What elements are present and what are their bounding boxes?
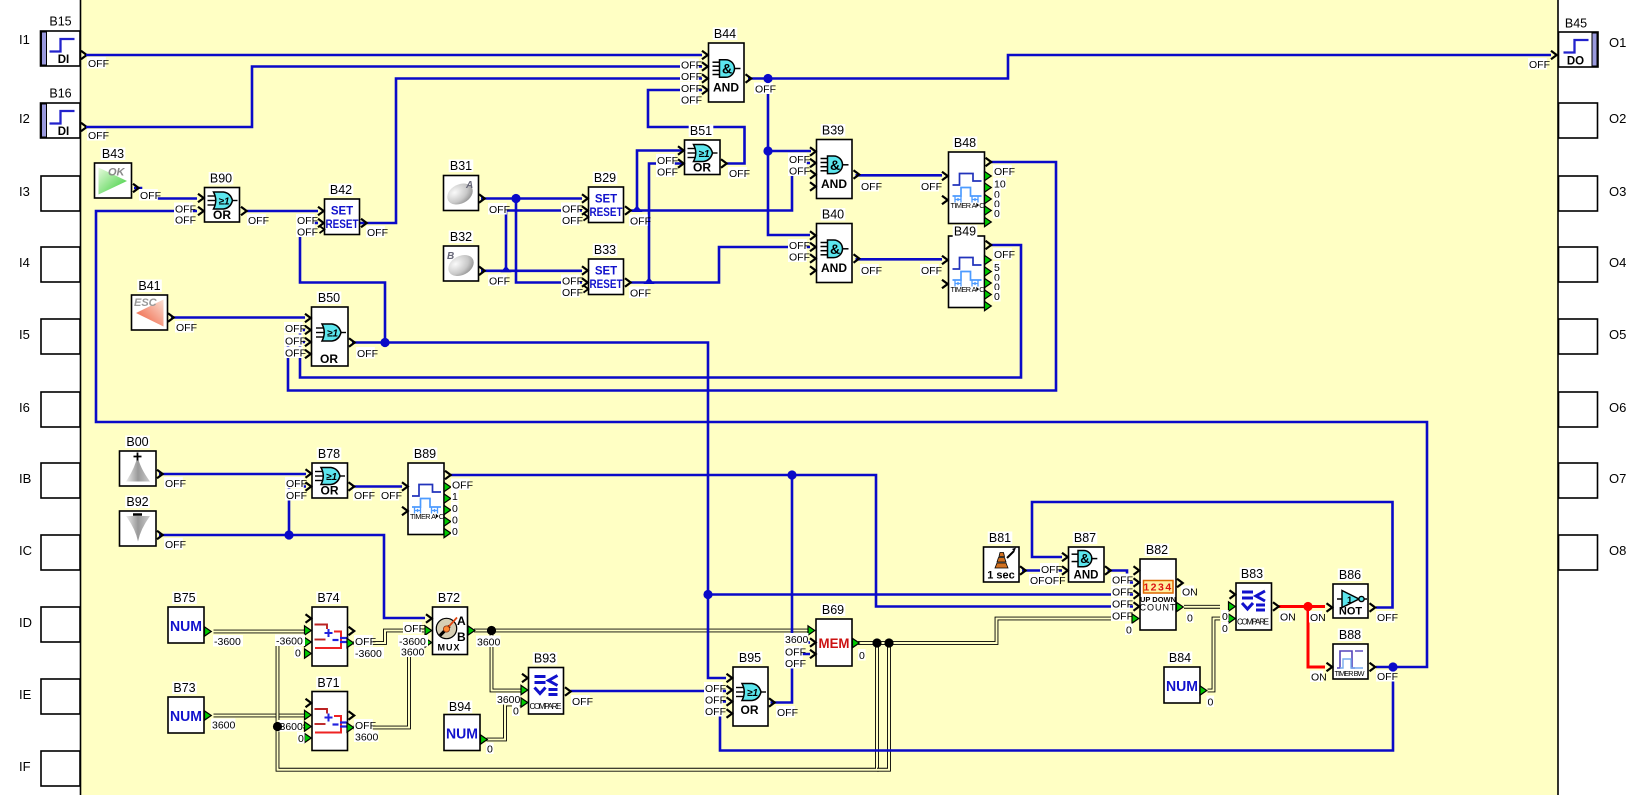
svg-text:O5: O5 [1609,327,1626,342]
junction red B83 output [1303,602,1312,611]
svg-text:-3600: -3600 [355,648,382,660]
block B74 (math instruction) [312,607,348,666]
B40 label [821,208,846,222]
red wire B83 output to B86 input [1279,605,1326,608]
block B43 (OK softkey) [95,163,132,198]
B92 label [125,495,150,509]
svg-text:IE: IE [19,687,32,702]
svg-text:0: 0 [1222,611,1228,623]
B95 label [738,651,763,665]
svg-text:0: 0 [513,705,519,717]
svg-text:TIMER A: TIMER A [951,201,977,210]
svg-text:0: 0 [452,526,458,538]
B15 output pin [81,51,87,60]
svg-text:AND: AND [821,261,847,275]
value label OFF at 165,478 [164,477,186,490]
B48 input pins [942,172,948,181]
B71 output pins [349,711,355,720]
svg-text:B84: B84 [1169,651,1191,665]
value label OFF at 140,190 [139,189,161,202]
svg-text:OFF: OFF [755,83,776,95]
B44 label [713,27,738,41]
block B82 (up/down counter) [1140,559,1177,630]
value label 0 at 1207.5,696.5 [1207,696,1215,709]
svg-text:0: 0 [994,208,1000,220]
value label OFF at 1112,598.5 [1111,598,1133,611]
B72 output pin [468,626,475,635]
svg-text:TIMER BW: TIMER BW [1335,669,1365,678]
value label OFF at 681,94.5 [680,94,702,107]
B90 output pin [241,207,247,216]
value label OFF at 88,130 [87,129,109,142]
output block B45 (DO, O1) [1559,32,1627,68]
B81 label [988,531,1013,545]
svg-text:I1: I1 [19,32,30,47]
B72 label [437,591,462,605]
value label OFF at 297,215 [296,214,318,227]
svg-text:3600: 3600 [212,719,236,731]
svg-text:OFF: OFF [789,240,810,252]
B41 label [137,279,162,293]
svg-text:NUM: NUM [170,708,202,725]
B93 label [533,652,558,666]
B41 output pin [168,313,174,322]
junction B50 net at B82 branch [703,590,712,599]
B84 label [1168,651,1193,665]
value label OFF at 562,275.5 [561,275,583,288]
svg-text:OFF: OFF [297,226,318,238]
B88 output pin [1370,663,1376,672]
wire B39 output to B48 input1 [856,174,943,177]
value label OFF at 88,58 [87,57,109,70]
B31 output pin [479,194,485,203]
wire B31 output to B33 input2 [516,199,582,283]
B86 input pin [1327,603,1333,612]
value label 10 at 994,178.5 [993,178,1006,191]
B32 output pin [479,267,485,276]
B39 output pin [854,170,860,179]
svg-text:OFF: OFF [562,215,583,227]
svg-text:0: 0 [452,503,458,515]
svg-text:OFF: OFF [354,490,375,502]
B39 label [821,124,846,138]
B49 output pin Q [986,241,992,250]
value label OFF at 562,215 [561,214,583,227]
wire B48 output to B50 input3 [288,162,1056,391]
svg-text:0: 0 [1126,624,1132,636]
value label OFF at 1377,671 [1376,670,1398,683]
junction B44 net at B39 input1 [763,146,772,155]
svg-text:C: C [439,512,444,521]
svg-text:IF: IF [19,759,31,774]
svg-text:C: C [979,201,984,210]
svg-text:IB: IB [19,471,31,486]
wire B93 output to B95 input2 [571,690,727,693]
svg-text:OFF: OFF [562,287,583,299]
svg-text:B44: B44 [714,27,736,41]
junction B88 output [1388,662,1397,671]
value label 0 at 1222,623 [1221,622,1229,635]
value label 5 at 994,262 [993,261,1001,274]
value label OFF at 777,707 [776,706,798,719]
B83 label [1240,567,1265,581]
B69 output pin [853,638,860,647]
svg-text:ON: ON [1311,671,1327,683]
svg-text:OFF: OFF [705,694,726,706]
value label OFF at 994,249 [993,248,1015,261]
svg-text:≥1: ≥1 [747,688,758,699]
svg-text:B51: B51 [690,124,712,138]
B82 output pin Q [1177,579,1183,588]
value label -3600 at 214,636 [213,635,243,648]
svg-text:3600: 3600 [355,731,379,743]
svg-text:B71: B71 [317,676,339,690]
svg-text:3600: 3600 [401,646,425,658]
value label OFF at 562,203.5 [561,203,583,216]
B00 output pin [157,470,163,479]
svg-text:ID: ID [19,615,32,630]
B31 label [449,159,474,173]
value label 0 at 487,743.5 [486,743,494,756]
block B93 (analog comparator) [529,668,564,715]
value label OFF at 785,646.5 [784,646,806,659]
svg-text:-3600: -3600 [276,635,303,647]
value label ON at 1311,671.5 [1310,671,1327,684]
value label OFF at 994,166 [993,165,1015,178]
value label OFF at 297,226.5 [296,226,318,239]
B00 label [125,435,150,449]
value label OFF at 861,181 [860,180,882,193]
input block B16 (DI, I2) [41,103,81,138]
svg-text:3600: 3600 [785,634,809,646]
svg-text:OFF: OFF [777,707,798,719]
svg-text:3600: 3600 [477,636,501,648]
svg-text:B90: B90 [210,172,232,186]
B87 output pin [1105,566,1111,575]
B78 output pin [349,482,355,491]
B86 output pin [1370,603,1376,612]
value label OFF at 1112,586.5 [1111,586,1133,599]
svg-text:OFF: OFF [921,181,942,193]
value label OFF at 286,478 [285,477,307,490]
svg-text:B69: B69 [822,603,844,617]
B93 input pins [522,674,528,683]
svg-text:OR: OR [693,161,711,175]
input connector IF (empty box) [19,751,80,786]
svg-text:B16: B16 [49,87,71,101]
junction B89 output [787,470,796,479]
svg-text:&: & [1080,551,1089,566]
B90 label [209,172,234,186]
svg-text:O1: O1 [1609,35,1626,50]
B94 output pin [481,735,488,744]
B40 input pins [810,231,816,240]
B48 output pin Q [986,158,992,167]
output connector O5 (empty box) [1559,319,1627,354]
B51 input pins [678,146,684,155]
svg-text:OFF: OFF [789,251,810,263]
junction analog feedback at B71 input3 [273,722,282,731]
value label OFF at 367,227 [366,226,388,239]
svg-text:I3: I3 [19,184,30,199]
B29 output pin [625,206,631,215]
svg-text:NUM: NUM [446,726,478,743]
analog wire B74 output to B72 input2 [354,631,425,644]
B49 parameter outputs [985,255,992,264]
block B95 (OR gate 4-input) [733,667,768,726]
wire B33 output to B51 input2 [649,164,683,283]
block B84 (NUM constant) [1164,667,1200,703]
B15 label [48,15,73,29]
svg-text:ON: ON [1182,586,1198,598]
svg-text:COMPARE: COMPARE [1237,618,1269,627]
block B48 (timer A to C) [949,152,985,224]
input connector I6 (empty box) [19,392,80,427]
svg-text:O8: O8 [1609,543,1626,558]
svg-text:OFF: OFF [286,490,307,502]
analog wire B84 output to B83 input3 [1208,619,1221,691]
svg-text:ON: ON [1280,611,1296,623]
value label OFF at 681,59.5 [680,59,702,72]
wire B44 output down to B39 and B40 input1 [768,79,810,236]
svg-text:1 sec: 1 sec [987,570,1015,582]
value label OFF at 921,181 [920,180,942,193]
svg-text:OFF: OFF [572,696,593,708]
svg-text:I5: I5 [19,327,30,342]
value label 0 at 994,281.5 [993,281,1001,294]
value label OFF at 176,322 [175,321,197,334]
svg-text:B81: B81 [989,531,1011,545]
svg-text:NOT: NOT [1339,606,1363,618]
svg-text:1234: 1234 [1143,582,1172,594]
svg-text:0: 0 [1187,612,1193,624]
svg-text:OFF: OFF [88,130,109,142]
wire I1 to B44 input1 [86,54,702,57]
block B88 (wiping relay timer BW) [1333,644,1368,679]
value label OFF at 705,706 [704,705,726,718]
block B71 (math instruction) [312,692,348,751]
junction B31 output [511,194,520,203]
junction analog B69 output drop2 [884,638,893,647]
value label 0 at 298,733 [297,732,305,745]
value label OFF at 404,623 [403,622,425,635]
svg-text:COUNT: COUNT [1140,603,1177,613]
block B40 (AND gate 4-input) [817,224,853,283]
svg-text:O3: O3 [1609,184,1626,199]
value label 3600 at 279.5,721 [279,720,304,733]
svg-text:B00: B00 [126,435,148,449]
block B83 (analog comparator) [1236,583,1272,630]
B83 input pins [1230,590,1236,599]
svg-text:AND: AND [821,177,847,191]
svg-text:OFF: OFF [921,265,942,277]
svg-text:0: 0 [994,291,1000,303]
B40 output pin [854,254,860,263]
value label OFF at 789,165.5 [788,165,810,178]
block B31 (sensor A icon) [444,176,479,211]
svg-text:B40: B40 [822,208,844,222]
svg-text:MEM: MEM [819,636,850,651]
analog wire B94 output to B93 input3 [487,705,522,740]
svg-text:OFF: OFF [785,646,806,658]
svg-text:COMPARE: COMPARE [530,702,562,711]
B45 input pin [1551,51,1557,60]
value label OFF at 630,287.5 [629,287,651,300]
B86 label [1338,568,1363,582]
input connector IC (empty box) [19,535,80,570]
value label OFF at 729,168 [728,167,750,180]
block B78 (OR gate) [312,463,348,498]
wire B49 output to B50 input2 [300,245,1021,378]
svg-text:O6: O6 [1609,400,1626,415]
B69 label [821,603,846,617]
svg-text:B73: B73 [173,681,195,695]
svg-text:B75: B75 [173,591,195,605]
svg-text:0: 0 [859,650,865,662]
svg-text:AND: AND [713,81,739,95]
B89 output pin Q [445,471,451,480]
B82 input pins [1134,566,1140,575]
output connector O6 (empty box) [1559,392,1627,427]
svg-text:A: A [457,614,466,628]
junction B44 output [763,74,772,83]
B74 label [316,591,341,605]
svg-text:OFF: OFF [994,166,1015,178]
value label OFF at 1529,59 [1528,58,1550,71]
value label OFF at 175,203.5 [174,203,196,216]
input connector IB (empty box) [19,463,80,498]
svg-text:B31: B31 [450,159,472,173]
block B42 (SET/RESET latch) [325,199,360,235]
svg-text:1: 1 [1347,595,1353,606]
junction analog B72 output [487,626,496,635]
svg-text:OFF: OFF [681,94,702,106]
analog wire B73 to B71 input2 [214,714,307,718]
svg-text:B41: B41 [138,279,160,293]
B44 output pin [746,74,752,83]
value label OFF at 285,323 [284,322,306,335]
svg-text:OFF: OFF [489,275,510,287]
svg-text:OFF: OFF [88,58,109,70]
value label 0 at 452,526 [451,525,459,538]
output connector O4 (empty box) [1559,247,1627,282]
svg-text:OFF: OFF [297,215,318,227]
svg-text:B86: B86 [1339,568,1361,582]
svg-text:OR: OR [213,208,231,222]
B33 label [593,243,618,257]
value label 0 at 994,291 [993,290,1001,303]
wire B92 output to B72 input1 [159,535,425,618]
junction B32 output branch up [501,266,512,273]
svg-text:OFF: OFF [1112,598,1133,610]
B50 output pin [349,338,355,347]
svg-text:1: 1 [452,491,458,503]
block B75 (NUM constant) [168,607,204,643]
svg-text:OFF: OFF [657,155,678,167]
block B33 (SET/RESET latch) [589,259,624,295]
svg-text:SET: SET [595,194,617,206]
B50 label [317,291,342,305]
analog wire B72 output to B93 input2 [492,631,522,691]
junction B92 output [284,530,293,539]
block B89 (timer A to C) [408,463,444,535]
B43 label [101,147,126,161]
analog wire feedback to B71 input3 [278,725,307,729]
B73 label [172,681,197,695]
svg-text:B74: B74 [317,591,339,605]
B16 label [48,87,73,101]
svg-text:OFF: OFF [248,215,269,227]
svg-text:ESC: ESC [134,297,158,309]
wire B50 output to B42 input2 [300,223,385,343]
B94 label [448,700,473,714]
output connector O2 (empty box) [1559,103,1627,138]
value label -3600 at 276,635.5 [275,635,305,648]
value label OFF at 785,658 [784,657,806,670]
B51 output pin [721,159,727,168]
block B44 (AND gate 4-input) [709,43,745,102]
svg-text:B50: B50 [318,291,340,305]
block B50 (OR gate 4-input) [312,307,349,366]
svg-text:OFF: OFF [630,287,651,299]
B93 output pin [565,687,571,696]
svg-text:B78: B78 [318,447,340,461]
svg-text:0: 0 [452,514,458,526]
svg-text:B39: B39 [822,124,844,138]
svg-text:B87: B87 [1074,531,1096,545]
svg-text:OFF: OFF [681,71,702,83]
B71 input pins [306,699,312,708]
svg-text:B29: B29 [594,171,616,185]
value label OFF at 681,71 [680,70,702,83]
value label OFF at 1041,564 [1040,563,1062,576]
B33 output pin [625,278,631,287]
svg-text:OFF: OFF [404,623,425,635]
value label OFF at 165,539 [164,538,186,551]
svg-text:OFF: OFF [1377,612,1398,624]
B29 label [593,171,618,185]
svg-text:B33: B33 [594,243,616,257]
value label OFF at 705,683 [704,682,726,695]
value label OFF at 452,479.5 [451,479,473,492]
svg-text:DI: DI [58,54,70,66]
input connector IE (empty box) [19,679,80,714]
value label OFF at 630,215.5 [629,215,651,228]
svg-text:B95: B95 [739,651,761,665]
wire B00 output to B78 input1 [159,473,306,476]
svg-text:OR: OR [320,352,338,366]
block B92 (lower icon) [120,511,157,546]
svg-text:B48: B48 [954,136,976,150]
svg-text:OFF: OFF [729,168,750,180]
svg-text:OFF: OFF [355,636,376,648]
value label OFF at 248,215 [247,214,269,227]
svg-text:B43: B43 [102,147,124,161]
svg-text:B82: B82 [1146,543,1168,557]
block B81 (1 sec pulse) [984,547,1020,582]
input connector I4 (empty box) [19,247,80,282]
wire I2 to B44 input2 [86,67,702,128]
analog wire B71 output to B72 input3 [354,643,425,728]
svg-text:OFF: OFF [165,539,186,551]
svg-text:≥1: ≥1 [698,149,709,160]
value label 1 at 452,491 [451,490,459,503]
output connector O8 (empty box) [1559,535,1627,570]
value label OFF at 657,155 [656,154,678,167]
B33 input pins [582,266,588,275]
value label 0 at 1187,612.5 [1186,612,1194,625]
svg-text:B42: B42 [330,183,352,197]
